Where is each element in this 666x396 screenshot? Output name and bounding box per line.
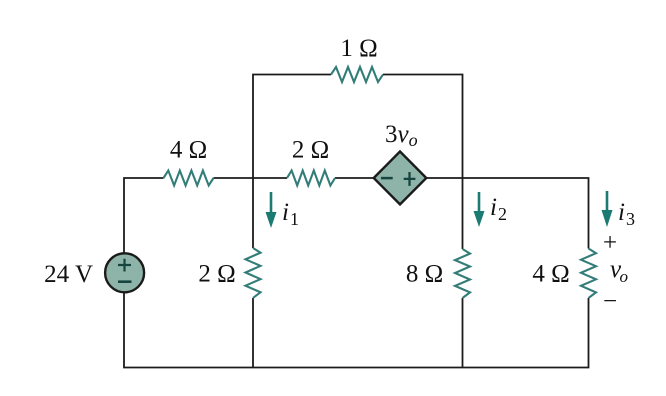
current arrow i2	[478, 192, 481, 213]
svg-text:i: i	[618, 199, 625, 226]
svg-text:4 Ω: 4 Ω	[170, 137, 207, 164]
plus inside diamond	[404, 172, 416, 186]
svg-text:2 Ω: 2 Ω	[198, 261, 235, 288]
wire node-A vertical lower	[252, 298, 254, 368]
wire middle rail between 2ohm and source	[335, 177, 374, 179]
voltage source V1 24V circle	[105, 253, 144, 292]
svg-text:o: o	[620, 267, 629, 286]
svg-text:i: i	[282, 199, 289, 226]
svg-text:8 Ω: 8 Ω	[406, 261, 443, 288]
svg-text:1: 1	[290, 209, 299, 229]
svg-text:4 Ω: 4 Ω	[532, 261, 569, 288]
svg-text:2: 2	[498, 204, 507, 224]
resistor R 4ohm right	[581, 249, 596, 299]
svg-text:2 Ω: 2 Ω	[292, 137, 329, 164]
wire left branch upper with mid rail left corner	[124, 178, 164, 253]
wire bottom rail with left and right lower branches	[124, 292, 589, 367]
wire node-B vertical lower	[462, 298, 464, 368]
dependent source U1 diamond	[374, 152, 427, 205]
svg-text:+: +	[603, 230, 617, 257]
resistor R 1ohm	[331, 67, 383, 82]
wire node-A vertical upper with top rail left	[253, 75, 331, 249]
current arrow i1	[270, 192, 273, 214]
wire top rail right with node-B vertical upper	[383, 75, 463, 250]
resistor R 2ohm middle	[287, 171, 335, 186]
svg-text:24 V: 24 V	[44, 261, 93, 288]
wire middle rail right with right branch corner	[426, 178, 589, 249]
resistor R 2ohm vertical	[246, 248, 261, 298]
resistor R 8ohm	[455, 249, 470, 298]
minus inside source	[118, 280, 132, 283]
svg-text:i: i	[490, 194, 497, 221]
svg-text:1 Ω: 1 Ω	[340, 35, 377, 62]
resistor R 4ohm left	[164, 171, 214, 186]
svg-text:3: 3	[626, 209, 635, 229]
svg-text:−: −	[603, 288, 617, 315]
plus inside source	[118, 259, 131, 272]
current arrow i3	[606, 191, 609, 212]
minus inside diamond	[381, 177, 393, 180]
wire middle rail between 4ohm and 2ohm	[214, 177, 288, 179]
